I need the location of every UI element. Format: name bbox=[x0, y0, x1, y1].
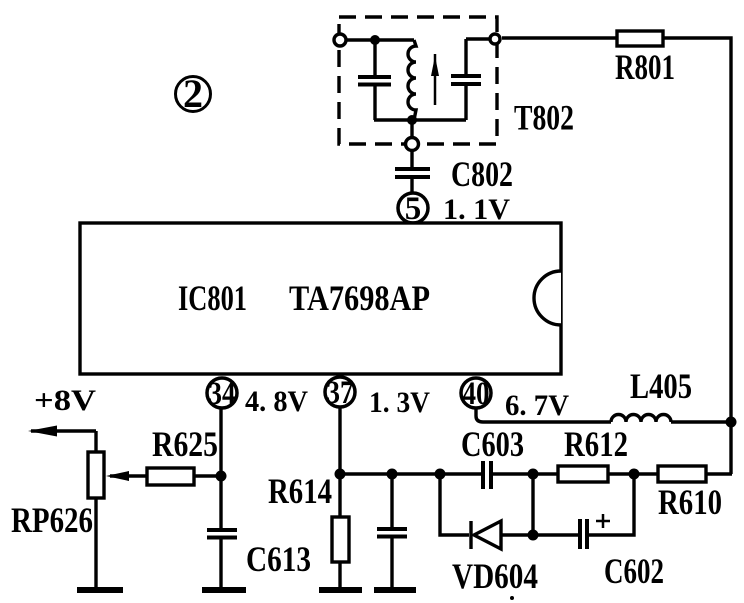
wire pot to ground bbox=[94, 498, 97, 588]
wire R612 to R610 bbox=[608, 472, 658, 475]
resistor R614 bbox=[332, 474, 349, 588]
svg-text:C802: C802 bbox=[451, 154, 513, 194]
transformer T802 dashed box bbox=[339, 17, 497, 144]
inductor L405 bbox=[611, 415, 671, 422]
wire +8V feed with arrow bbox=[28, 426, 96, 454]
wire C603 to R612 bbox=[492, 472, 558, 475]
wire diode branch down bbox=[440, 474, 469, 535]
wire pin37 down bbox=[338, 408, 341, 474]
terminal top-right bbox=[490, 34, 500, 44]
ground R614 bbox=[319, 587, 362, 593]
wire R625 to node bbox=[194, 474, 222, 477]
svg-text:C602: C602 bbox=[604, 551, 664, 591]
wire to bottom terminal bbox=[410, 120, 413, 137]
wire R610 to right rail bbox=[706, 472, 732, 475]
capacitor C613 bbox=[207, 530, 237, 588]
terminal top-left bbox=[334, 34, 346, 46]
pin 5 bbox=[398, 191, 428, 227]
svg-text:34: 34 bbox=[209, 376, 236, 412]
node link bottom bbox=[528, 530, 539, 541]
resistor R801 bbox=[617, 31, 663, 46]
wire top-left to coil bbox=[347, 38, 414, 41]
svg-text:R801: R801 bbox=[615, 47, 675, 87]
capacitor T802 right bbox=[451, 39, 489, 120]
svg-text:R614: R614 bbox=[268, 471, 332, 511]
svg-text:40: 40 bbox=[463, 376, 490, 412]
tuning arrow bbox=[431, 54, 439, 105]
svg-text:2: 2 bbox=[183, 71, 203, 116]
capacitor C802 bbox=[395, 169, 430, 192]
svg-text:1. 3V: 1. 3V bbox=[369, 386, 430, 419]
potentiometer RP626 bbox=[88, 452, 147, 498]
capacitor C614 bbox=[377, 474, 407, 588]
node junction primary top bbox=[370, 35, 380, 45]
node cap branch bbox=[387, 469, 398, 480]
svg-text:C613: C613 bbox=[246, 539, 311, 579]
capacitor C603 bbox=[483, 461, 491, 489]
terminal bottom bbox=[406, 138, 419, 151]
pin 34 bbox=[207, 376, 237, 412]
svg-text:1. 1V: 1. 1V bbox=[443, 193, 510, 226]
diode VD604 bbox=[471, 521, 533, 549]
ground C614 bbox=[374, 587, 416, 593]
resistor R612 bbox=[558, 466, 608, 482]
wire node to C613 bbox=[219, 476, 222, 528]
svg-text:+8V: +8V bbox=[34, 384, 96, 417]
wire R801 to right rail bbox=[663, 38, 731, 474]
wire pin40 to L405 bbox=[476, 409, 611, 422]
node R612/R610 bbox=[629, 469, 640, 480]
svg-text:R612: R612 bbox=[564, 424, 628, 464]
IC notch bbox=[534, 271, 561, 325]
node link top bbox=[528, 469, 539, 480]
pin 40 bbox=[461, 376, 491, 412]
node R625/C613 bbox=[216, 471, 227, 482]
wire TR terminal to R801 bbox=[502, 36, 617, 39]
speck bbox=[510, 596, 514, 600]
svg-text:37: 37 bbox=[327, 375, 354, 411]
svg-text:VD604: VD604 bbox=[452, 556, 538, 596]
ground C613 bbox=[202, 587, 246, 593]
svg-text:4. 8V: 4. 8V bbox=[245, 385, 308, 418]
svg-text:C603: C603 bbox=[461, 424, 524, 464]
node diode branch bbox=[435, 469, 446, 480]
wire pin34 down bbox=[219, 409, 222, 476]
node junction bottom bbox=[407, 115, 417, 125]
resistor R625 bbox=[147, 468, 194, 485]
resistor R610 bbox=[658, 466, 706, 482]
wire link C603 out to diode out bbox=[531, 474, 534, 535]
capacitor T802 left bbox=[358, 40, 391, 120]
ground RP626 bbox=[77, 587, 123, 593]
pin 37 bbox=[325, 375, 355, 411]
node right rail L405 bbox=[726, 417, 737, 428]
svg-text:R610: R610 bbox=[658, 482, 722, 522]
wire T802 bottom interior bbox=[374, 118, 466, 121]
node pin37 bus bbox=[335, 469, 346, 480]
wire L405 to right rail bbox=[671, 420, 732, 423]
svg-text:T802: T802 bbox=[514, 98, 574, 138]
wire terminal to C802 bbox=[410, 152, 413, 167]
capacitor C602 bbox=[533, 474, 634, 549]
sheet badge 2 bbox=[176, 71, 211, 116]
svg-text:R625: R625 bbox=[152, 424, 218, 464]
winding T802 primary bbox=[408, 40, 416, 120]
wire bus to C603 bbox=[340, 472, 482, 475]
IC U801 box bbox=[80, 223, 561, 374]
svg-text:RP626: RP626 bbox=[11, 500, 93, 540]
svg-text:6. 7V: 6. 7V bbox=[505, 389, 569, 422]
svg-text:IC801: IC801 bbox=[178, 278, 247, 318]
svg-text:L405: L405 bbox=[630, 366, 692, 406]
svg-text:TA7698AP: TA7698AP bbox=[289, 278, 430, 318]
